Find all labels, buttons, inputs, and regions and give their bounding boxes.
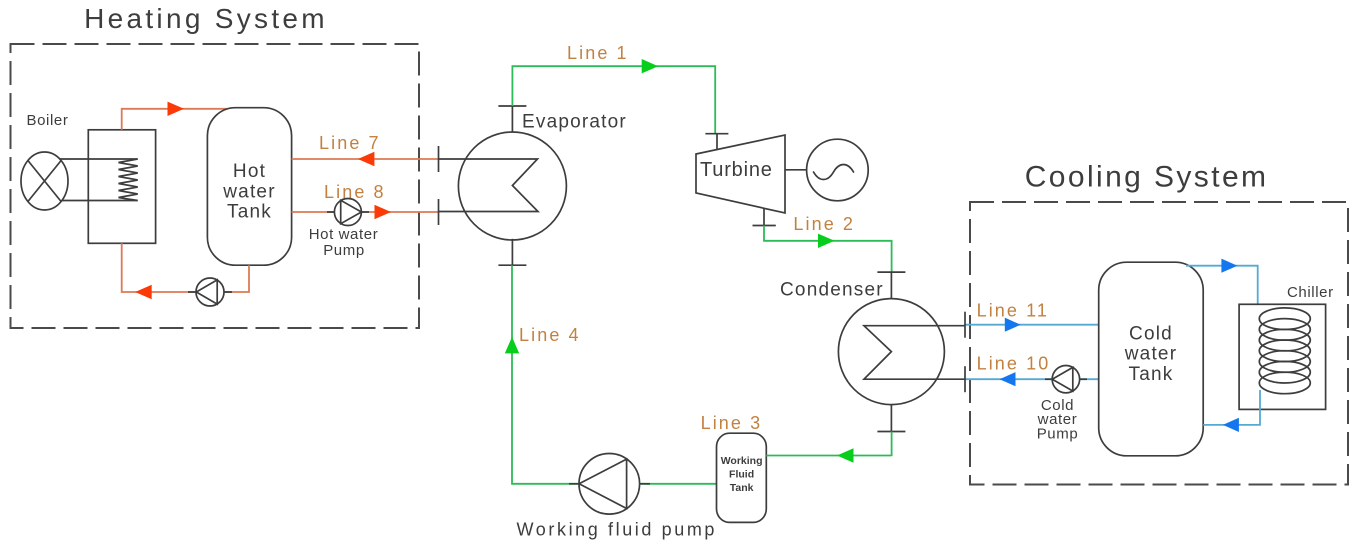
boiler heating coil zigzag — [119, 159, 138, 201]
wire boiler pump to heat exchanger bottom — [122, 243, 196, 292]
svg-text:Pump: Pump — [323, 242, 365, 259]
arrow Line 1 (right) — [642, 59, 659, 73]
hot water tank — [207, 108, 291, 266]
turbine top stem — [716, 134, 718, 150]
cooling system dashed boundary box — [970, 202, 1348, 485]
wire boiler bottom pipe — [62, 200, 138, 202]
svg-text:Hot water: Hot water — [309, 226, 379, 243]
svg-text:Evaporator: Evaporator — [522, 112, 627, 133]
svg-text:Line 2: Line 2 — [793, 214, 855, 234]
boiler X diagonal 1 — [28, 161, 61, 202]
nozzle tick Line 7 — [438, 146, 440, 172]
boiler loop pump — [196, 278, 224, 306]
svg-text:Condenser: Condenser — [780, 280, 884, 301]
wire Line 4 green — [512, 265, 581, 484]
svg-text:Heating System: Heating System — [84, 3, 328, 34]
wire Line 7 orange — [292, 158, 439, 160]
arrow Line 10 (left) — [1000, 372, 1016, 386]
svg-text:water: water — [1124, 344, 1177, 365]
heating system dashed boundary box — [11, 44, 420, 328]
condenser top stem — [890, 272, 892, 299]
condenser bottom tick — [877, 431, 905, 433]
svg-text:Line 11: Line 11 — [977, 301, 1049, 321]
svg-text:Cooling System: Cooling System — [1025, 161, 1269, 194]
svg-text:Boiler: Boiler — [27, 112, 69, 129]
evaporator vessel — [458, 132, 566, 240]
wire pump to working fluid tank — [640, 483, 717, 485]
working fluid pump — [579, 454, 640, 515]
arrow Line 2 (right) — [818, 234, 835, 248]
boiler heat exchanger shell — [88, 130, 155, 244]
evaporator tube chevron — [439, 159, 539, 212]
wire Line 3 green — [766, 455, 891, 457]
wire stub right of cold water pump — [1080, 378, 1087, 380]
evaporator bottom tick — [498, 264, 526, 266]
svg-text:Pump: Pump — [1037, 426, 1079, 443]
arrow chiller feed (right) — [1221, 259, 1237, 273]
arrow chiller return (left) — [1223, 418, 1239, 432]
evaporator top stem — [511, 106, 513, 133]
wire Line 11 blue — [965, 324, 1099, 326]
condenser tube chevron — [864, 326, 965, 380]
svg-text:Line 10: Line 10 — [977, 353, 1051, 373]
arrow Line 11 (right) — [1005, 318, 1021, 332]
arrow Line 3 (left) — [837, 448, 854, 462]
boiler burner ellipse — [21, 152, 68, 210]
svg-text:Line 8: Line 8 — [324, 182, 386, 202]
svg-text:Line 1: Line 1 — [567, 43, 629, 63]
evaporator bottom stem — [511, 239, 513, 265]
wire Line 8 orange — [292, 211, 439, 213]
nozzle tick Line 8 — [438, 199, 440, 225]
turbine bottom tick — [753, 225, 776, 227]
nozzle tick Line 11 — [964, 312, 966, 338]
svg-text:Turbine: Turbine — [700, 159, 773, 181]
arrow Line 7 (left) — [358, 152, 375, 166]
condenser vessel — [838, 299, 944, 405]
nozzle tick Line 10 — [964, 366, 966, 392]
wire stub right of boiler pump — [224, 291, 232, 293]
hot water pump — [334, 199, 361, 226]
svg-text:water: water — [222, 181, 275, 202]
svg-text:Line 4: Line 4 — [519, 325, 581, 345]
turbine top tick — [705, 133, 728, 135]
wire Line 2 green — [764, 226, 892, 273]
generator sine wave — [814, 165, 854, 180]
wire Line 1 green — [512, 66, 715, 134]
wire stub left of hot water pump — [327, 211, 334, 213]
turbine bottom stem — [763, 208, 765, 225]
svg-text:Fluid: Fluid — [729, 469, 754, 481]
arrow hot loop bottom (left) — [135, 285, 152, 299]
turbine body — [696, 135, 785, 213]
svg-text:Tank: Tank — [1129, 364, 1174, 385]
svg-text:Cold: Cold — [1129, 323, 1173, 344]
svg-text:Line 3: Line 3 — [701, 413, 763, 433]
wire chiller to tank blue return — [1203, 390, 1260, 425]
wire stub right of working fluid pump — [640, 483, 650, 485]
wire hot loop riser from heat exchanger top — [122, 109, 230, 130]
svg-text:Working: Working — [721, 455, 763, 467]
svg-text:Working fluid pump: Working fluid pump — [517, 520, 718, 540]
wire stub left of boiler pump — [188, 291, 196, 293]
generator circle — [807, 139, 869, 201]
wire tank bottom to boiler pump — [224, 265, 249, 292]
wire condenser bottom to Line 3 — [891, 432, 893, 457]
wire stub right of hot water pump — [361, 211, 369, 213]
cold water pump — [1052, 366, 1079, 393]
wire tank to chiller blue top — [1186, 266, 1258, 315]
working fluid tank — [717, 433, 767, 522]
cold water tank — [1099, 262, 1204, 456]
svg-text:Tank: Tank — [227, 202, 272, 223]
condenser top tick — [877, 271, 905, 273]
arrow hot loop top (right) — [168, 102, 185, 116]
condenser bottom stem — [890, 405, 892, 432]
wire stub left of cold water pump — [1045, 378, 1052, 380]
wire stub left of working fluid pump — [569, 483, 579, 485]
svg-text:Chiller: Chiller — [1287, 284, 1334, 301]
evaporator top tick — [498, 105, 526, 107]
arrow Line 4 (up) — [505, 337, 519, 354]
chiller box — [1239, 304, 1326, 409]
generator shaft wire — [785, 169, 807, 171]
svg-text:Tank: Tank — [730, 482, 754, 494]
wire boiler top pipe — [60, 158, 138, 160]
wire Line 10 blue — [965, 378, 1099, 380]
svg-text:Line 7: Line 7 — [319, 133, 381, 153]
boiler X diagonal 2 — [28, 161, 61, 202]
arrow Line 8 (right) — [375, 205, 392, 219]
svg-text:Hot: Hot — [233, 161, 266, 182]
chiller coil — [1259, 308, 1310, 394]
